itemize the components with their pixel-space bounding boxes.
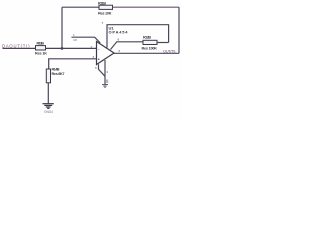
svg-text:Res 100K: Res 100K [142,46,158,50]
svg-text:R11B: R11B [98,1,106,5]
pin 5 wire V- [99,64,106,76]
wire output [114,52,179,54]
wire R14B to ground [47,83,49,104]
resistor R13B [36,46,46,50]
resistor R14B [46,69,50,83]
svg-text:-: - [98,46,100,51]
pin 1 E/D wire [72,37,101,43]
svg-text:1: 1 [73,33,75,37]
pin V+ 7 wire [107,25,169,48]
wire DAOUT input [3,47,36,49]
svg-text:7: 7 [102,21,104,25]
svg-text:Res 10K: Res 10K [98,11,112,15]
junction [61,47,64,50]
svg-text:+: + [98,57,101,62]
svg-text:OPA454: OPA454 [109,30,129,35]
svg-text:DAOUT(TI): DAOUT(TI) [2,43,30,48]
svg-text:GND4: GND4 [44,110,53,114]
ground small under op-amp [102,85,108,88]
wire feedback top right [113,6,180,8]
svg-text:R13B: R13B [37,41,45,45]
wire feedback top left [62,6,99,8]
svg-text:Res 1K: Res 1K [35,52,47,56]
svg-text:6: 6 [119,49,121,53]
resistor R11B [99,5,113,9]
wire feedback vertical right [178,7,180,53]
ground GND4 [43,104,54,109]
svg-text:4: 4 [106,70,108,74]
op-amp U1 triangle [97,42,115,65]
svg-text:OUT(TI): OUT(TI) [163,49,176,54]
pin 4 wire V- down [104,60,106,84]
svg-text:ED: ED [74,38,78,42]
wire IN+ from R14B [49,59,97,69]
svg-text:5: 5 [95,66,97,70]
resistor R12B [143,40,157,44]
wire R13B to op-amp [46,47,97,49]
svg-text:Res 8K7: Res 8K7 [52,72,65,76]
wire R12B right to V+ rail [157,42,169,44]
svg-text:R12B: R12B [143,36,151,40]
pin 8 status wire [111,42,144,50]
wire feedback vertical left [61,7,63,48]
svg-text:8: 8 [118,37,120,41]
